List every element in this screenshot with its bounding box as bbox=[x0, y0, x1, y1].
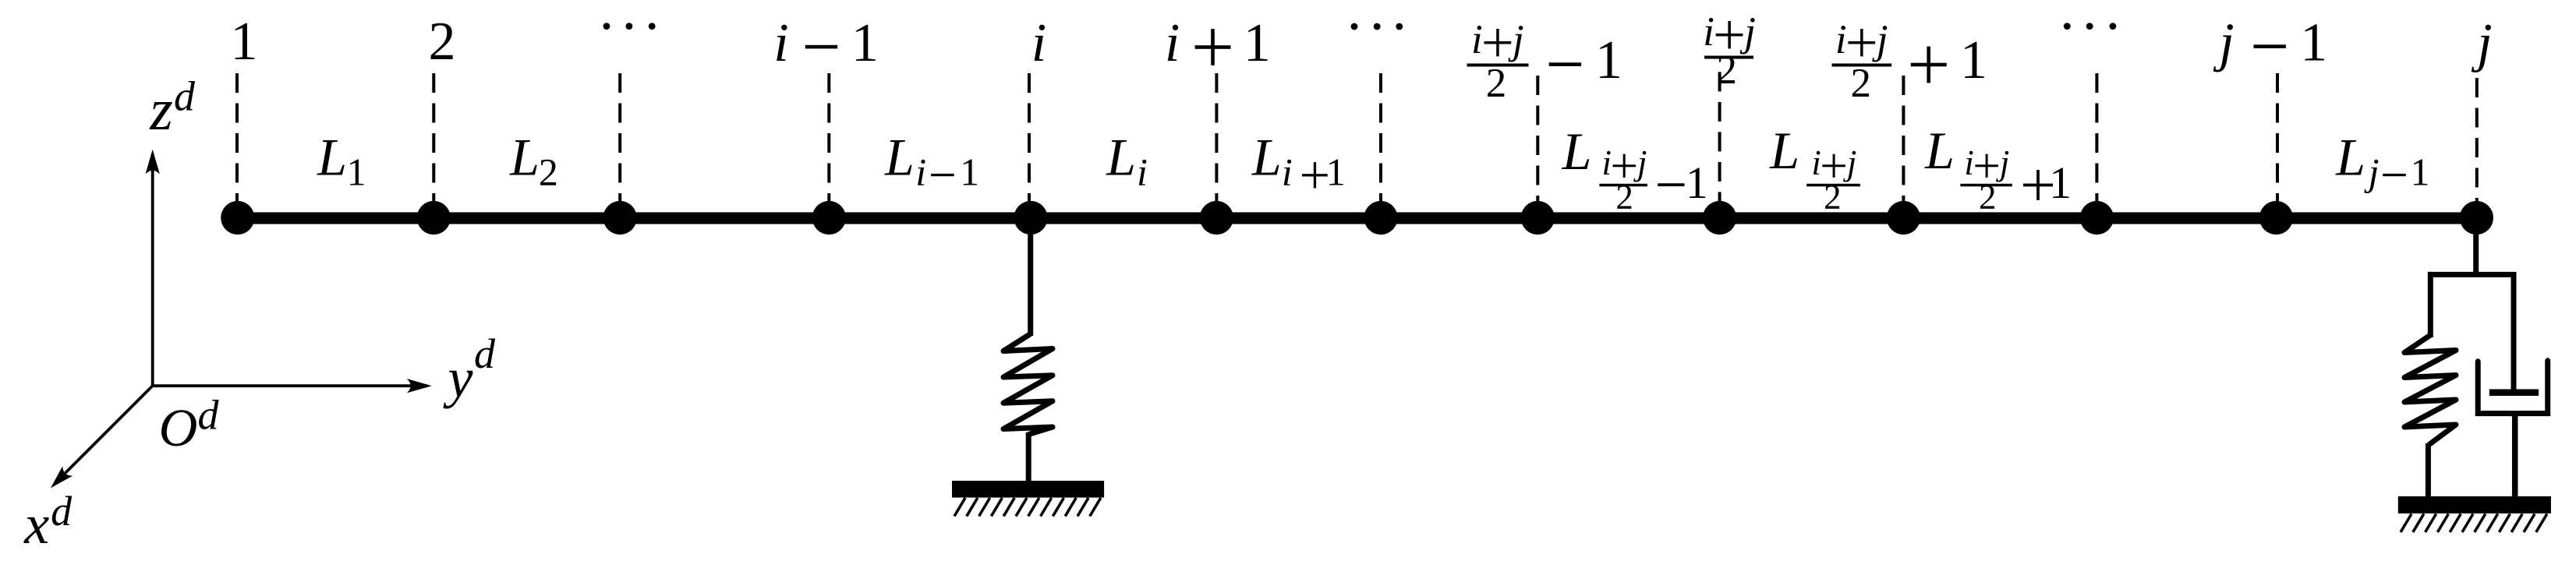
svg-text:1: 1 bbox=[2411, 150, 2430, 193]
svg-text:1: 1 bbox=[2300, 13, 2327, 73]
svg-text:1: 1 bbox=[1960, 30, 1987, 90]
svg-text:z: z bbox=[149, 77, 173, 143]
svg-text:L: L bbox=[1251, 127, 1282, 186]
svg-text:2: 2 bbox=[1486, 61, 1507, 106]
svg-text:2: 2 bbox=[1615, 178, 1633, 217]
svg-text:i: i bbox=[1165, 13, 1180, 73]
svg-text:i: i bbox=[773, 13, 788, 73]
beam (discretized shaft) bbox=[238, 212, 2477, 224]
svg-text:i: i bbox=[1601, 143, 1612, 182]
svg-text:L: L bbox=[2335, 127, 2365, 186]
node ... dot bbox=[2080, 201, 2114, 235]
dashed leader line node 2 bbox=[432, 73, 435, 207]
svg-text:i: i bbox=[915, 150, 926, 193]
svg-text:2: 2 bbox=[1824, 178, 1842, 217]
svg-text:1: 1 bbox=[1244, 13, 1271, 73]
node j dot bbox=[2460, 201, 2493, 235]
node (i+j)/2+1 dot bbox=[1887, 201, 1920, 235]
dashed leader line node 6 bbox=[1215, 73, 1218, 207]
spring support at node i : top link bbox=[1028, 217, 1033, 336]
node label dots (ellipsis) bbox=[603, 23, 610, 30]
svg-text:L: L bbox=[1106, 127, 1136, 186]
svg-text:x: x bbox=[23, 493, 49, 556]
dashed leader line node 3 bbox=[618, 73, 621, 207]
svg-text:1: 1 bbox=[960, 150, 979, 193]
node j-1 dot bbox=[2259, 201, 2293, 235]
y-axis line bbox=[153, 384, 427, 387]
svg-text:2: 2 bbox=[429, 12, 456, 72]
spring at node i : bottom link bbox=[1026, 432, 1031, 482]
T splitter at node j bbox=[2430, 274, 2514, 392]
svg-text:O: O bbox=[159, 398, 198, 457]
node label dots (ellipsis) bbox=[2064, 23, 2071, 30]
link from node j down bbox=[2473, 217, 2479, 274]
dashed leader line node 1 bbox=[235, 73, 239, 207]
node (i+j)/2 dot bbox=[1703, 201, 1736, 235]
node (i+j)/2-1 dot bbox=[1521, 201, 1555, 235]
ground plate below node j bbox=[2398, 496, 2551, 513]
svg-text:2: 2 bbox=[1979, 178, 1997, 217]
svg-text:1: 1 bbox=[1595, 30, 1622, 90]
svg-text:i: i bbox=[1471, 17, 1483, 62]
svg-text:d: d bbox=[174, 73, 196, 120]
dashed leader line node 10 bbox=[1902, 76, 1905, 207]
dashed leader line node 8 bbox=[1536, 76, 1539, 207]
svg-text:1: 1 bbox=[1686, 157, 1708, 208]
svg-text:i: i bbox=[1703, 9, 1714, 55]
damper cylinder (cup) bbox=[2478, 361, 2548, 414]
svg-text:L: L bbox=[317, 127, 347, 186]
node 1 dot bbox=[221, 201, 254, 235]
dashed leader line node 12 bbox=[2276, 73, 2279, 207]
svg-text:1: 1 bbox=[231, 12, 258, 72]
svg-text:i: i bbox=[1282, 150, 1293, 193]
ground hatching below node j bbox=[2401, 514, 2411, 533]
svg-text:i: i bbox=[1031, 13, 1046, 73]
svg-text:2: 2 bbox=[1850, 61, 1871, 106]
dashed leader line node 9 bbox=[1718, 72, 1721, 206]
ground plate below node i bbox=[952, 481, 1104, 498]
svg-text:d: d bbox=[198, 392, 220, 439]
z-axis arrowhead bbox=[146, 150, 160, 175]
svg-text:i: i bbox=[1811, 143, 1821, 182]
dashed leader line node 13 bbox=[2475, 78, 2479, 207]
svg-text:i: i bbox=[1964, 143, 1974, 182]
spring at node j (zigzag) bbox=[2404, 335, 2456, 445]
svg-text:L: L bbox=[1562, 122, 1592, 181]
svg-text:1: 1 bbox=[1326, 150, 1346, 193]
damper bottom link bbox=[2512, 413, 2518, 497]
node 2 dot bbox=[417, 201, 451, 235]
spring at node j : bottom link bbox=[2426, 443, 2431, 497]
dashed leader line node 7 bbox=[1379, 73, 1382, 207]
z-axis line bbox=[151, 153, 154, 386]
svg-text:i: i bbox=[1835, 17, 1847, 62]
ground hatching below node i bbox=[954, 498, 965, 517]
x-axis arrowhead bbox=[51, 466, 73, 488]
node ... dot bbox=[1364, 201, 1397, 235]
damper piston plate bbox=[2489, 390, 2539, 397]
y-axis arrowhead bbox=[407, 379, 432, 393]
svg-text:L: L bbox=[1924, 121, 1955, 180]
svg-text:2: 2 bbox=[1716, 48, 1737, 93]
node label dots (ellipsis) bbox=[1351, 23, 1358, 30]
x-axis line bbox=[55, 386, 153, 484]
svg-text:d: d bbox=[51, 488, 73, 534]
dashed leader line node 5 bbox=[1028, 73, 1031, 207]
svg-text:1: 1 bbox=[851, 13, 879, 73]
svg-text:L: L bbox=[884, 127, 915, 186]
svg-text:1: 1 bbox=[347, 150, 366, 193]
svg-text:1: 1 bbox=[2049, 157, 2072, 208]
node i dot bbox=[1014, 201, 1047, 235]
svg-text:2: 2 bbox=[539, 150, 558, 193]
svg-text:i: i bbox=[1137, 150, 1148, 193]
dashed leader line node 11 bbox=[2095, 73, 2098, 207]
svg-text:d: d bbox=[474, 330, 496, 377]
svg-text:L: L bbox=[509, 127, 540, 186]
node i-1 dot bbox=[812, 201, 846, 235]
spring at node i (zigzag) bbox=[1003, 334, 1053, 435]
node ... dot bbox=[603, 201, 637, 235]
svg-text:L: L bbox=[1769, 121, 1799, 180]
dashed leader line node 4 bbox=[827, 73, 830, 207]
node i+1 dot bbox=[1200, 201, 1233, 235]
